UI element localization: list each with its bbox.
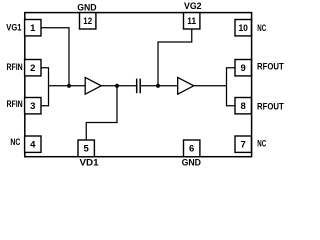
svg-text:2: 2: [30, 63, 35, 74]
svg-text:4: 4: [30, 140, 36, 151]
svg-text:1: 1: [30, 23, 36, 34]
svg-text:7: 7: [241, 140, 246, 151]
svg-text:RFIN: RFIN: [7, 62, 23, 73]
svg-text:5: 5: [84, 144, 90, 155]
svg-text:VG2: VG2: [184, 1, 202, 12]
svg-text:9: 9: [241, 63, 246, 74]
svg-text:NC: NC: [257, 23, 266, 34]
svg-text:NC: NC: [257, 139, 266, 150]
svg-text:6: 6: [189, 144, 194, 155]
svg-text:RFOUT: RFOUT: [257, 102, 284, 113]
svg-text:3: 3: [30, 101, 35, 112]
svg-text:GND: GND: [182, 157, 202, 168]
svg-text:12: 12: [83, 16, 92, 27]
svg-text:8: 8: [241, 101, 246, 112]
svg-text:VD1: VD1: [80, 157, 100, 168]
svg-text:RFIN: RFIN: [7, 99, 23, 110]
svg-text:GND: GND: [77, 2, 97, 13]
svg-text:VG1: VG1: [6, 22, 22, 33]
svg-text:NC: NC: [10, 137, 20, 148]
svg-text:11: 11: [187, 16, 196, 27]
svg-text:RFOUT: RFOUT: [257, 61, 284, 72]
svg-text:10: 10: [238, 23, 248, 34]
